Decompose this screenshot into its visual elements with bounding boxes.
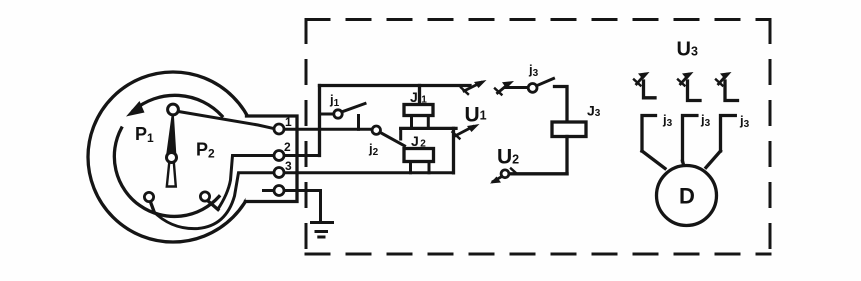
gauge terminal box — [246, 116, 298, 202]
U3 phase 3 lower contact hook — [721, 116, 736, 152]
gauge contact rail arc — [114, 128, 219, 216]
terminal 2 wire segment to riser — [284, 154, 320, 157]
contact j3 circle — [528, 84, 537, 93]
contact j1 fixed tick — [357, 116, 360, 130]
svg-text:U2: U2 — [497, 146, 519, 169]
U3 phase 2 lower contact hook — [683, 116, 697, 162]
dashed control box border left edge — [305, 20, 308, 255]
terminal 1 wire through box — [284, 128, 372, 131]
svg-text:D: D — [679, 184, 695, 209]
relay J3 coil — [552, 122, 586, 137]
U3 phase 1 upper contact piece — [644, 81, 656, 98]
U2 lower terminal arrow — [490, 169, 516, 184]
contact P1 stem — [151, 202, 155, 212]
U1 upper terminal arrow — [461, 80, 487, 94]
U2 lower terminal circle — [501, 170, 509, 178]
needle tip contact circle — [168, 104, 179, 115]
svg-text:j3: j3 — [662, 112, 673, 129]
gauge direction arrow arc — [134, 95, 223, 116]
U3 phase 2 lead to motor — [683, 161, 685, 167]
wire U2 upper to j3 contact — [506, 86, 528, 89]
contact P1 circle — [144, 192, 153, 201]
svg-text:P1: P1 — [135, 124, 154, 145]
dashed control box border right edge — [769, 20, 772, 255]
terminal 2 circle — [274, 151, 284, 161]
terminal 1 circle — [274, 124, 284, 134]
riser from bus3 to J1 bottom wire — [452, 128, 455, 172]
contact j2 fixed tick — [399, 130, 402, 140]
terminal 3 wire long bus to right — [284, 171, 454, 174]
dashed control box border top edge — [306, 18, 770, 21]
contact P2 circle — [200, 192, 209, 201]
svg-text:U1: U1 — [465, 104, 487, 127]
wire J1 bottom to U1 lower terminal — [401, 127, 456, 130]
terminal 4 (ground) wire — [264, 191, 321, 223]
needle pivot circle — [167, 153, 177, 163]
svg-text:j3: j3 — [528, 62, 539, 79]
relay J2 bottom pins — [411, 162, 430, 173]
U2 upper terminal arrow — [495, 81, 514, 95]
contact j3 fixed wire to J3 — [555, 87, 568, 123]
U3 phase 3 upper contact piece — [725, 81, 738, 101]
svg-text:j1: j1 — [329, 92, 340, 109]
svg-text:j3: j3 — [700, 112, 711, 129]
svg-text:j3: j3 — [739, 113, 750, 130]
wire from needle tip contact to terminal 1 — [179, 112, 274, 129]
contact j2 arm — [380, 132, 405, 146]
svg-text:U3: U3 — [677, 39, 698, 61]
svg-text:P2: P2 — [196, 140, 215, 161]
wire J3 bottom to U2 lower terminal — [509, 172, 567, 175]
contact j2 circle — [372, 126, 380, 134]
svg-text:1: 1 — [285, 115, 292, 129]
relay J1 coil — [404, 105, 433, 116]
svg-text:2: 2 — [284, 140, 291, 154]
relay J1 top stub — [418, 86, 421, 105]
U3 phase 3 lead to motor — [706, 151, 721, 168]
svg-text:J2: J2 — [411, 133, 426, 150]
svg-text:j2: j2 — [368, 141, 379, 158]
motor D circle — [657, 166, 717, 226]
contact j1 arm — [342, 104, 365, 112]
svg-text:J3: J3 — [587, 103, 601, 120]
terminal 3 circle — [274, 168, 284, 178]
U3 phase 3 terminal arrow — [716, 72, 732, 86]
wire from P2 contact to terminal 2 — [218, 156, 273, 210]
relay J1 bottom pins — [412, 116, 429, 129]
relay J2 coil — [404, 149, 434, 162]
U1 lower terminal arrow — [453, 124, 480, 139]
contact j3 arm — [537, 79, 554, 86]
U3 phase 2 terminal arrow — [678, 72, 694, 86]
contact P2 stem — [208, 201, 219, 210]
dashed control box border bottom edge — [306, 253, 770, 256]
riser from terminal2 to top bus — [318, 86, 321, 156]
gauge direction arrowhead — [126, 101, 145, 117]
contact j1 circle — [334, 110, 342, 118]
relay J3 bottom stub — [565, 137, 568, 174]
ground symbol — [312, 223, 333, 238]
U3 phase 1 lower contact hook — [642, 116, 656, 152]
U3 phase 1 terminal arrow — [634, 72, 650, 86]
contact j1 stub from riser — [320, 113, 335, 116]
U3 phase 1 lead to motor — [642, 151, 665, 169]
terminal 4 circle — [274, 186, 284, 196]
needle tail — [167, 162, 176, 187]
pressure gauge case outer circle — [88, 72, 258, 242]
needle pivot to tip — [167, 114, 175, 155]
wire from P1 contact along gauge bottom to terminal 3 — [154, 173, 273, 229]
U3 phase 2 upper contact piece — [688, 81, 701, 101]
svg-text:3: 3 — [285, 159, 292, 173]
top bus wire to U1 upper terminal — [320, 84, 471, 87]
